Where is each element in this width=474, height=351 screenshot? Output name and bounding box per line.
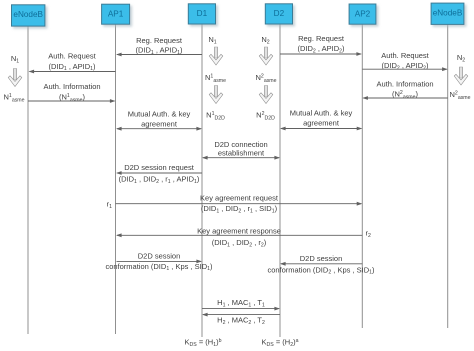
message Reg. Request D1 to AP1 [116, 36, 202, 56]
svg-text:(DID1 , DID2 , r2): (DID1 , DID2 , r2) [212, 238, 267, 248]
message Auth. Request AP2 to eNodeB-right [362, 51, 447, 71]
label N2 (right of eNodeB-right lifeline) [457, 53, 465, 63]
message D2D connection establishment D1-D2 [202, 140, 280, 159]
actor box D2 [265, 4, 292, 24]
message Mutual Auth. and key agreement D2-AP2 [280, 109, 362, 131]
svg-text:eNodeB: eNodeB [433, 9, 463, 18]
lifeline D1 [201, 24, 203, 337]
svg-text:(DID2 , APID2): (DID2 , APID2) [297, 44, 345, 54]
lifeline eNodeB right [447, 24, 449, 328]
actor box AP2 [349, 4, 376, 24]
svg-text:eNodeB: eNodeB [13, 10, 43, 19]
block arrow D2 column lower [259, 86, 273, 104]
svg-text:Reg. Request: Reg. Request [298, 34, 345, 43]
label N2D2D (D2 column) [256, 111, 275, 122]
block arrow left column [8, 69, 22, 87]
message Reg. Request D2 to AP2 [280, 34, 362, 56]
message Key agreement response AP2 to AP1 [116, 227, 362, 249]
lifeline D2 [279, 24, 281, 337]
actor box eNodeB (right) [431, 3, 464, 24]
message D2D session request D1 to AP1 [116, 163, 202, 185]
svg-text:Mutual Auth. & key: Mutual Auth. & key [128, 110, 191, 119]
label N1D2D (D1 column) [206, 111, 225, 122]
label KDS = (H2)^a under D2 [262, 338, 299, 348]
lifeline AP2 [361, 24, 363, 328]
svg-text:agreement: agreement [303, 119, 340, 128]
svg-text:Auth. Information: Auth. Information [43, 82, 100, 91]
svg-text:Key agreement request: Key agreement request [200, 194, 279, 203]
svg-text:Auth. Request: Auth. Request [48, 52, 96, 61]
actor box eNodeB (left) [12, 5, 45, 26]
svg-text:AP1: AP1 [108, 10, 124, 19]
svg-text:agreement: agreement [141, 120, 178, 129]
svg-text:Reg. Request: Reg. Request [136, 36, 183, 45]
message Mutual Auth. and key agreement AP1-D1 [116, 110, 202, 131]
label N1asme (left column) [4, 93, 25, 104]
svg-text:D2D session: D2D session [138, 252, 181, 261]
svg-text:Auth. Information: Auth. Information [376, 80, 433, 89]
svg-text:Auth. Request: Auth. Request [381, 51, 429, 60]
svg-text:(DID1 , DID2 , r1 , APID1): (DID1 , DID2 , r1 , APID1) [119, 175, 200, 185]
svg-text:D1: D1 [197, 9, 208, 18]
label r2 right of AP2 [366, 229, 372, 239]
label N2 (left of D2 lifeline) [261, 35, 269, 45]
message H2 MAC2 T2 D2 to D1 [202, 313, 280, 326]
svg-text:D2: D2 [274, 9, 285, 18]
message D2D session conformation AP1 to D1 [105, 252, 213, 272]
message Auth. Information eNodeB-left to AP1 [28, 82, 116, 103]
lifeline AP1 [115, 25, 117, 335]
lifeline eNodeB left [27, 26, 29, 334]
message D2D session conformation AP2 to D2 [267, 254, 375, 276]
message H1 MAC1 T1 D1 to D2 [202, 298, 280, 310]
label KDS = (H1)^b under D1 [185, 338, 222, 348]
message Auth. Information eNodeB-right to AP2 [362, 80, 447, 101]
label r1 left of AP1 [107, 200, 113, 210]
svg-text:AP2: AP2 [355, 9, 371, 18]
block arrow D1 column upper [209, 47, 223, 65]
svg-text:establishment: establishment [218, 148, 265, 157]
block arrow D2 column upper [259, 47, 273, 65]
label N2asme (right column) [450, 90, 471, 101]
label N2asme (D2 column) [256, 73, 277, 84]
label N1asme (D1 column) [205, 73, 226, 84]
svg-text:D2D session request: D2D session request [124, 163, 195, 172]
message Key agreement request AP1 to AP2 [116, 194, 363, 215]
svg-text:Key agreement response: Key agreement response [197, 227, 281, 236]
label N1 (right of D1 lifeline) [208, 35, 216, 45]
block arrow right column [454, 67, 468, 85]
svg-text:conformation (DID2 , Kps , SID: conformation (DID2 , Kps , SID1) [267, 265, 375, 275]
label N1 (left of eNodeB-left lifeline) [11, 54, 19, 64]
actor box AP1 [102, 4, 130, 24]
svg-text:conformation (DID1 , Kps , SID: conformation (DID1 , Kps , SID1) [105, 262, 213, 272]
message Auth. Request AP1 to eNodeB-left [29, 52, 116, 74]
svg-text:(DID2 , APID2): (DID2 , APID2) [381, 61, 429, 71]
actor box D1 [188, 4, 215, 24]
svg-text:D2D session: D2D session [300, 254, 343, 263]
svg-text:Mutual Auth. & key: Mutual Auth. & key [290, 109, 353, 118]
block arrow D1 column lower [209, 86, 223, 104]
svg-text:(DID1 , APID1): (DID1 , APID1) [48, 62, 96, 72]
